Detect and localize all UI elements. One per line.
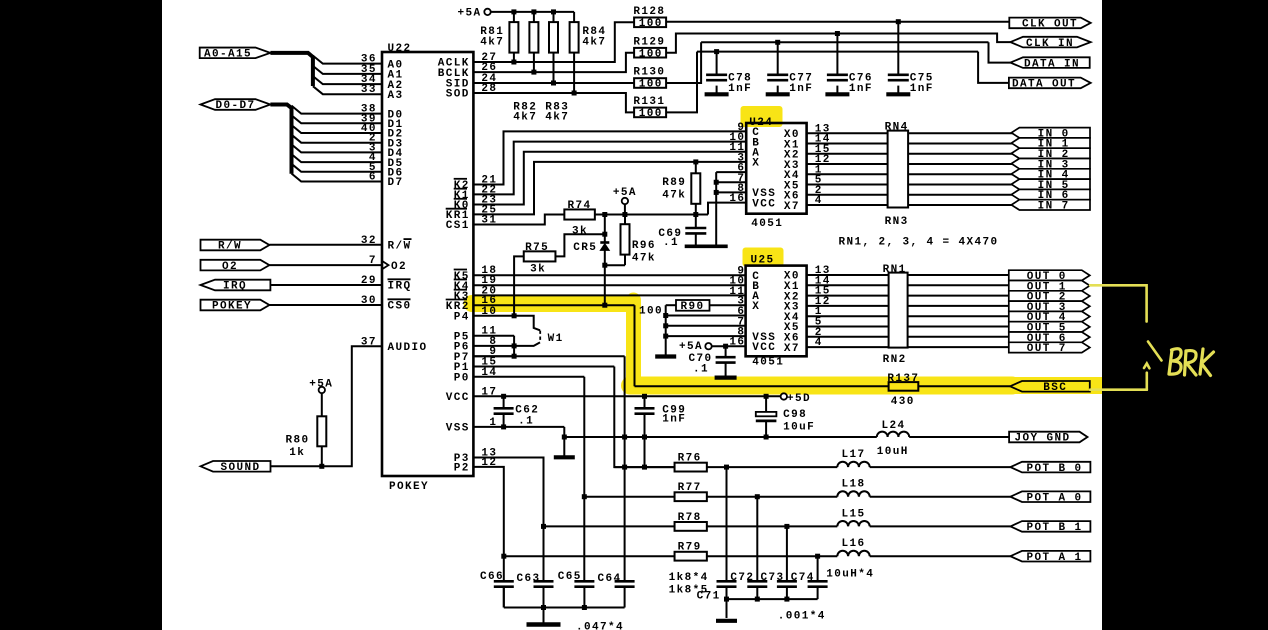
svg-text:6: 6 — [369, 172, 377, 184]
svg-text:CS1: CS1 — [446, 220, 470, 232]
svg-text:47k: 47k — [662, 190, 686, 202]
svg-text:+5A: +5A — [309, 378, 333, 390]
svg-text:IRQ: IRQ — [223, 281, 247, 293]
svg-text:R137: R137 — [887, 373, 919, 385]
svg-text:CR5: CR5 — [573, 242, 597, 254]
svg-text:1k8*4: 1k8*4 — [669, 572, 709, 584]
svg-text:C66: C66 — [480, 571, 504, 583]
svg-text:R129: R129 — [633, 36, 665, 48]
svg-text:X: X — [752, 301, 760, 313]
svg-text:RN4: RN4 — [885, 122, 909, 134]
svg-text:P2: P2 — [454, 463, 470, 475]
svg-text:4051: 4051 — [751, 218, 783, 230]
svg-text:+5D: +5D — [787, 393, 811, 405]
svg-text:4k7: 4k7 — [582, 36, 606, 48]
svg-text:1nF: 1nF — [789, 83, 813, 95]
svg-text:33: 33 — [361, 84, 377, 96]
svg-text:3k: 3k — [530, 264, 546, 276]
svg-text:L16: L16 — [842, 538, 866, 550]
svg-text:4k7 4k7: 4k7 4k7 — [513, 112, 569, 124]
svg-text:30: 30 — [361, 295, 377, 307]
svg-text:U22: U22 — [388, 43, 412, 55]
svg-text:R75: R75 — [525, 242, 549, 254]
svg-text:L24: L24 — [882, 420, 906, 432]
svg-text:IRQ: IRQ — [388, 281, 412, 293]
svg-text:C65: C65 — [558, 571, 582, 583]
svg-text:P0: P0 — [454, 373, 470, 385]
svg-text:X7: X7 — [784, 201, 800, 213]
svg-text:1nF: 1nF — [910, 83, 934, 95]
svg-text:C63: C63 — [517, 573, 541, 585]
svg-text:R96: R96 — [632, 240, 656, 252]
svg-text:100: 100 — [639, 306, 663, 318]
svg-text:A0-A15: A0-A15 — [204, 49, 252, 61]
svg-text:R/W: R/W — [388, 241, 412, 253]
svg-text:4051: 4051 — [752, 357, 784, 369]
svg-text:12: 12 — [481, 457, 497, 469]
svg-text:100: 100 — [639, 48, 663, 60]
svg-text:32: 32 — [361, 235, 377, 247]
svg-text:R77: R77 — [678, 482, 702, 494]
svg-text:.1: .1 — [693, 363, 709, 375]
svg-text:RN3: RN3 — [885, 216, 909, 228]
svg-text:10uF: 10uF — [783, 422, 815, 434]
svg-text:W1: W1 — [548, 333, 564, 345]
svg-text:R89: R89 — [662, 177, 686, 189]
svg-text:O2: O2 — [391, 261, 407, 273]
svg-text:R80: R80 — [286, 435, 310, 447]
svg-text:47k: 47k — [632, 253, 656, 265]
svg-text:29: 29 — [361, 275, 377, 287]
svg-text:.047*4: .047*4 — [576, 622, 624, 630]
svg-text:SOUND: SOUND — [221, 462, 261, 474]
svg-text:1nF: 1nF — [662, 414, 686, 426]
svg-text:.1: .1 — [518, 416, 534, 428]
svg-text:430: 430 — [891, 396, 915, 408]
svg-text:A3: A3 — [388, 90, 404, 102]
svg-text:RN2: RN2 — [883, 354, 907, 366]
svg-text:7: 7 — [369, 255, 377, 267]
svg-text:C98: C98 — [783, 409, 807, 421]
svg-text:37: 37 — [361, 336, 377, 348]
svg-text:+5A: +5A — [679, 341, 703, 353]
svg-text:VSS: VSS — [446, 423, 470, 435]
svg-text:10uH*4: 10uH*4 — [826, 569, 874, 581]
svg-text:O2: O2 — [222, 261, 238, 273]
svg-text:L18: L18 — [842, 479, 866, 491]
svg-text:BSC: BSC — [1043, 382, 1067, 394]
svg-text:DATA OUT: DATA OUT — [1012, 79, 1076, 91]
svg-text:1nF: 1nF — [849, 83, 873, 95]
svg-text:C73: C73 — [761, 572, 785, 584]
svg-text:.1: .1 — [663, 237, 679, 249]
svg-text:RN1: RN1 — [883, 264, 907, 276]
svg-text:C64: C64 — [598, 573, 622, 585]
svg-text:VCC: VCC — [752, 198, 776, 210]
svg-text:D0-D7: D0-D7 — [216, 100, 256, 112]
svg-text:100: 100 — [639, 108, 663, 120]
svg-text:R79: R79 — [678, 542, 702, 554]
svg-text:POT A 0: POT A 0 — [1027, 492, 1083, 504]
svg-text:4k7: 4k7 — [480, 36, 504, 48]
svg-text:1nF: 1nF — [728, 83, 752, 95]
svg-text:L17: L17 — [842, 449, 866, 461]
svg-text:17: 17 — [481, 386, 497, 398]
svg-text:AUDIO: AUDIO — [388, 342, 428, 354]
svg-text:+5A: +5A — [613, 187, 637, 199]
svg-text:R/W: R/W — [218, 241, 242, 253]
svg-text:3k: 3k — [572, 226, 588, 238]
svg-text:R76: R76 — [678, 453, 702, 465]
svg-text:POT A 1: POT A 1 — [1027, 552, 1083, 564]
svg-text:R128: R128 — [633, 6, 665, 18]
svg-text:1: 1 — [489, 417, 497, 429]
svg-text:SOD: SOD — [446, 89, 470, 101]
svg-text:.001*4: .001*4 — [778, 610, 826, 622]
svg-text:P4: P4 — [454, 312, 470, 324]
svg-text:C74: C74 — [791, 572, 815, 584]
svg-text:POT B 1: POT B 1 — [1027, 522, 1083, 534]
svg-text:+5A: +5A — [458, 8, 482, 20]
svg-text:L15: L15 — [842, 508, 866, 520]
svg-text:100: 100 — [639, 79, 663, 91]
svg-text:U25: U25 — [751, 254, 775, 266]
svg-text:100: 100 — [639, 18, 663, 30]
svg-text:1k: 1k — [289, 447, 305, 459]
svg-text:CS0: CS0 — [388, 301, 412, 313]
svg-text:JOY GND: JOY GND — [1015, 433, 1071, 445]
svg-text:C71: C71 — [697, 591, 721, 603]
svg-text:OUT 7: OUT 7 — [1027, 343, 1067, 355]
svg-text:X7: X7 — [784, 343, 800, 355]
svg-text:R131: R131 — [633, 96, 665, 108]
svg-text:10uH: 10uH — [877, 446, 909, 458]
svg-text:CLK OUT: CLK OUT — [1022, 19, 1078, 31]
svg-text:R74: R74 — [568, 200, 592, 212]
svg-text:R130: R130 — [633, 67, 665, 79]
svg-text:VCC: VCC — [752, 342, 776, 354]
svg-text:R90: R90 — [681, 301, 705, 313]
svg-text:VCC: VCC — [446, 392, 470, 404]
svg-text:RN1, 2, 3, 4 = 4X470: RN1, 2, 3, 4 = 4X470 — [839, 236, 999, 248]
svg-text:D7: D7 — [388, 177, 404, 189]
svg-text:R78: R78 — [678, 512, 702, 524]
svg-text:DATA IN: DATA IN — [1024, 58, 1080, 70]
svg-text:POKEY: POKEY — [212, 301, 252, 313]
svg-text:C72: C72 — [730, 572, 754, 584]
svg-text:CLK IN: CLK IN — [1026, 38, 1074, 50]
svg-text:IN 7: IN 7 — [1038, 200, 1070, 212]
svg-text:16: 16 — [729, 193, 745, 205]
svg-text:X: X — [752, 158, 760, 170]
svg-text:POT B 0: POT B 0 — [1027, 463, 1083, 475]
svg-text:POKEY: POKEY — [389, 481, 429, 493]
